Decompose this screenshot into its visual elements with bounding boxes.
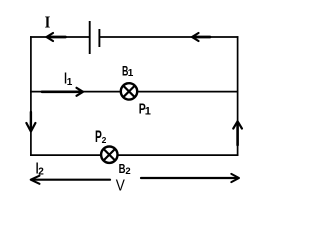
svg-text:I: I [45,12,51,31]
svg-text:1: 1 [67,77,73,88]
svg-text:2: 2 [125,166,130,177]
svg-text:2: 2 [38,167,44,178]
svg-text:2: 2 [102,135,107,145]
svg-text:1: 1 [145,106,151,118]
svg-text:1: 1 [128,68,134,79]
svg-text:V: V [116,178,125,195]
